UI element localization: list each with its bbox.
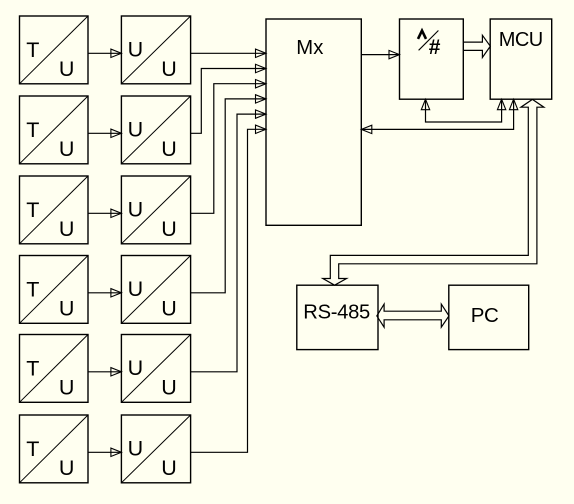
svg-text:T: T — [26, 278, 39, 302]
wire T/U 5 output to U/U 5 input — [88, 368, 121, 376]
svg-text:T: T — [26, 437, 39, 461]
svg-text:U: U — [59, 57, 75, 81]
svg-text:U: U — [59, 217, 75, 241]
svg-text:U: U — [59, 137, 75, 161]
wire Mx output to ADC input — [361, 50, 399, 58]
wire U/U 1 output to Mx input 1 — [191, 49, 266, 57]
block PC personal computer — [449, 285, 529, 349]
svg-text:U: U — [59, 376, 75, 400]
block U/U normalizing amplifier 5 — [121, 335, 190, 403]
svg-text:U: U — [128, 356, 144, 380]
block Mx analog multiplexer — [266, 19, 361, 225]
svg-text:U: U — [59, 456, 75, 480]
block U/U normalizing amplifier 6 — [121, 415, 190, 483]
svg-text:T: T — [26, 38, 39, 62]
wire T/U 6 output to U/U 6 input — [88, 448, 121, 456]
block MCU microcontroller — [490, 19, 552, 99]
block T/U converter 2 (temperature-to-voltage) — [20, 96, 89, 164]
block T/U converter 4 (temperature-to-voltage) — [20, 256, 89, 324]
block U/U normalizing amplifier 1 — [121, 16, 190, 84]
wire U/U 5 output to Mx input 5 — [191, 110, 266, 372]
svg-text:U: U — [59, 297, 75, 321]
svg-text:U: U — [128, 198, 144, 222]
svg-text:U: U — [128, 38, 144, 62]
block U/U normalizing amplifier 4 — [121, 256, 190, 324]
svg-text:U: U — [161, 456, 177, 480]
svg-text:MCU: MCU — [499, 29, 543, 51]
svg-text:T: T — [26, 118, 39, 142]
block T/U converter 5 (temperature-to-voltage) — [20, 335, 89, 403]
block arrow ADC to MCU (data bus) — [463, 35, 490, 57]
block RS-485 interface — [297, 285, 378, 349]
svg-text:U: U — [161, 297, 177, 321]
wire U/U 6 output to Mx input 6 — [191, 125, 266, 452]
block T/U converter 1 (temperature-to-voltage) — [20, 16, 89, 84]
wire T/U 3 output to U/U 3 input — [88, 209, 121, 217]
block U/U normalizing amplifier 2 — [121, 96, 190, 164]
svg-text:U: U — [128, 437, 144, 461]
wire U/U 3 output to Mx input 3 — [191, 80, 266, 214]
block T/U converter 6 (temperature-to-voltage) — [20, 415, 89, 483]
svg-text:PC: PC — [471, 304, 499, 327]
block T/U converter 3 (temperature-to-voltage) — [20, 176, 89, 244]
svg-text:#: # — [429, 36, 441, 59]
svg-text:U: U — [128, 277, 144, 301]
svg-text:U: U — [161, 376, 177, 400]
block arrow RS-485 to PC (bidirectional link) — [377, 304, 449, 327]
wire U/U 2 output to Mx input 2 — [191, 64, 266, 133]
wire T/U 4 output to U/U 4 input — [88, 289, 121, 297]
wire T/U 2 output to U/U 2 input — [88, 129, 121, 137]
wire MCU channel-select to Mx — [361, 99, 518, 133]
svg-text:U: U — [161, 217, 177, 241]
svg-text:U: U — [128, 118, 144, 142]
svg-text:U: U — [161, 137, 177, 161]
svg-text:T: T — [26, 357, 39, 381]
wire U/U 4 output to Mx input 4 — [191, 95, 266, 293]
wire MCU control to ADC (start conversion) — [421, 99, 506, 122]
block U/U normalizing amplifier 3 — [121, 176, 190, 244]
block arrow MCU to RS-485 (bidirectional bus) — [323, 99, 544, 285]
svg-text:T: T — [26, 198, 39, 222]
svg-text:Mx: Mx — [296, 37, 323, 59]
svg-text:RS-485: RS-485 — [303, 302, 370, 324]
svg-text:U: U — [161, 57, 177, 81]
block ADC (analog ^/# digital converter) — [400, 19, 464, 99]
wire T/U 1 output to U/U 1 input — [88, 49, 121, 57]
